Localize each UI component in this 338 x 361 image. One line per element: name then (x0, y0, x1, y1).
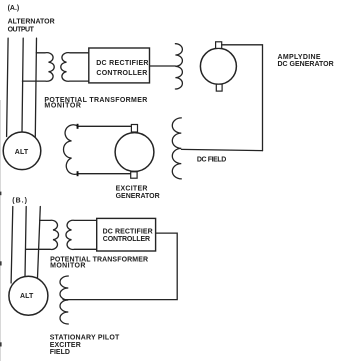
page edge mark 3 (0, 192, 1, 196)
transformer secondary with leads (A) (61, 53, 89, 82)
coil exciter field (A) (64, 125, 79, 175)
svg-text:DC RECTIFIER: DC RECTIFIER (96, 60, 149, 67)
svg-text:(A.): (A.) (8, 5, 20, 12)
svg-text:DC GENERATOR: DC GENERATOR (278, 61, 334, 68)
svg-text:ALT: ALT (20, 293, 34, 300)
wire to DC field coil (181, 149, 262, 150)
junction tick top (exciter field) (77, 124, 79, 129)
transformer secondary with leads (B) (66, 220, 97, 249)
brush top (exciter) (131, 125, 137, 133)
generator exciter (A) (115, 133, 154, 172)
brush top (amplidyne) (216, 42, 222, 49)
svg-text:ALTERNATOR: ALTERNATOR (8, 19, 55, 26)
alternator ALT (B) (9, 276, 48, 315)
svg-text:OUTPUT: OUTPUT (8, 26, 35, 33)
svg-text:AMPLYDINE: AMPLYDINE (278, 54, 321, 61)
wire alternator phase line 2 (A) (22, 38, 23, 132)
junction tick bottom (exciter field) (77, 171, 79, 176)
svg-text:ALT: ALT (15, 149, 29, 156)
transformer primary with leads (A) (22, 53, 54, 82)
svg-text:MONITOR: MONITOR (44, 103, 81, 110)
box U1 DC RECTIFIER CONTROLLER (A) (89, 48, 150, 83)
wire controller output to amplidyne field (A) (150, 65, 176, 67)
box U2 DC RECTIFIER CONTROLLER (B) (97, 218, 156, 251)
svg-text:STATIONARY PILOT: STATIONARY PILOT (50, 334, 120, 341)
wire alternator phase line 3 (B) (37, 207, 40, 281)
wire alternator phase line 1 (B) (11, 207, 13, 284)
svg-text:CONTROLLER: CONTROLLER (96, 70, 147, 77)
page edge artifact line (0, 100, 2, 361)
generator amplidyne (A) (200, 48, 236, 84)
svg-text:FIELD: FIELD (50, 349, 70, 356)
wire exciter field bottom (A) (78, 173, 131, 175)
svg-text:EXCITER: EXCITER (50, 342, 81, 349)
wire controller output loop to pilot field (B) (63, 233, 177, 300)
coil DC FIELD (172, 118, 181, 179)
brush bottom (amplidyne) (216, 84, 222, 91)
alternator ALT (A) (3, 132, 41, 170)
svg-text:CONTROLLER: CONTROLLER (103, 236, 150, 243)
wire alternator phase line 2 (B) (25, 207, 26, 278)
wire exciter field top (A) (78, 125, 132, 127)
page edge mark 1 (0, 261, 2, 265)
coil amplidyne control field (175, 44, 182, 89)
wire alternator phase line 1 (A) (7, 38, 9, 136)
brush bottom (exciter) (131, 172, 137, 178)
svg-text:DC RECTIFIER: DC RECTIFIER (103, 228, 153, 235)
wire amplidyne output down right side (222, 45, 263, 151)
wire alternator phase line 3 (A) (35, 38, 36, 136)
page edge mark 2 (0, 342, 2, 346)
coil stationary pilot exciter field (B) (60, 276, 68, 324)
svg-text:GENERATOR: GENERATOR (116, 193, 160, 200)
transformer primary with leads (B) (26, 220, 59, 249)
svg-text:EXCITER: EXCITER (116, 186, 148, 193)
svg-text:DC FIELD: DC FIELD (197, 156, 226, 163)
svg-text:(B.): (B.) (12, 197, 28, 204)
svg-text:MONITOR: MONITOR (50, 262, 86, 269)
